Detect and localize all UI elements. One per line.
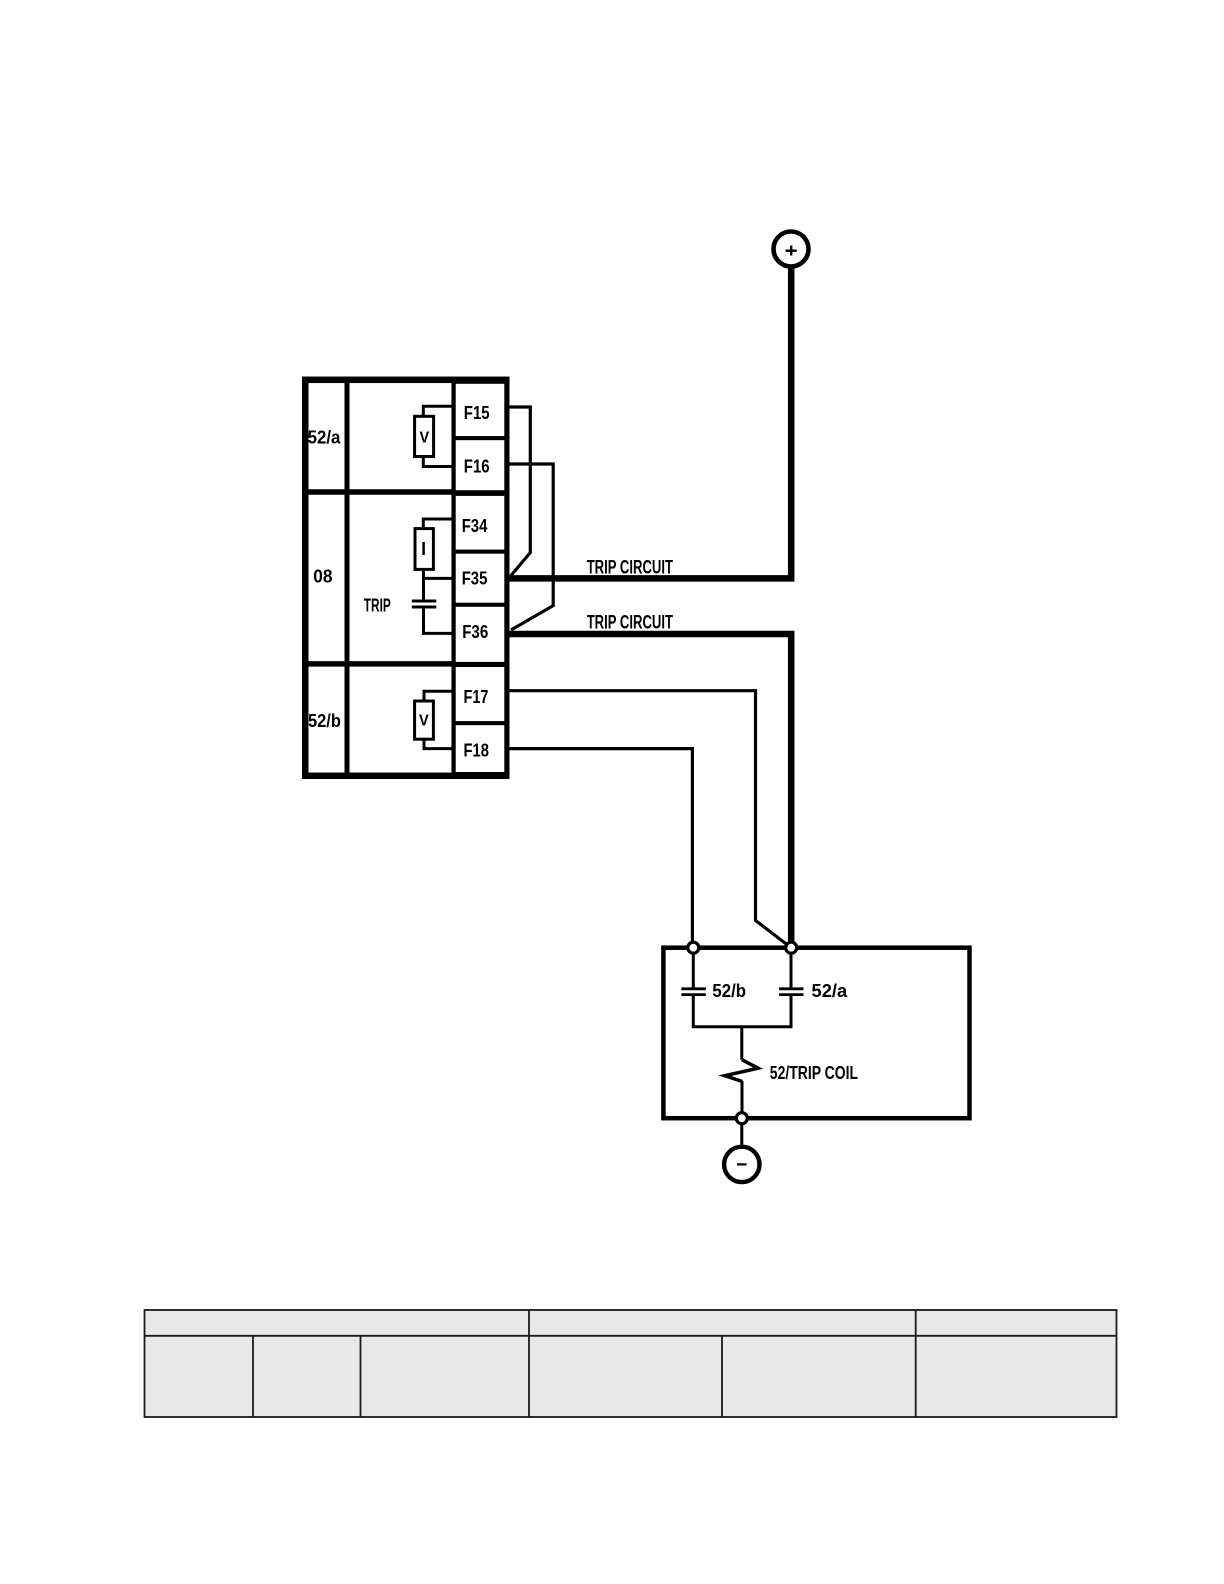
trip circuit wire 1 (F35 to +) xyxy=(507,268,792,579)
table xyxy=(145,1310,1117,1417)
node 52/a top xyxy=(786,942,797,953)
trip circuit wire 2 (F36 to 52/a contact) xyxy=(507,634,792,948)
svg-text:TRIP CIRCUIT: TRIP CIRCUIT xyxy=(587,612,674,633)
svg-text:F17: F17 xyxy=(464,687,489,707)
svg-text:52/a: 52/a xyxy=(308,427,342,447)
svg-text:52/a: 52/a xyxy=(812,981,849,1001)
node 52/b top xyxy=(688,942,699,953)
contact 52/a plate bottom xyxy=(779,993,803,996)
voltage element V box (row 52/b) xyxy=(415,701,434,739)
contact 52/b wire upper xyxy=(692,948,695,988)
positive terminal xyxy=(774,232,809,267)
breaker auxiliary box xyxy=(663,948,969,1118)
voltage element V (row 52/b) wire bottom xyxy=(424,737,454,749)
terminal F16 box xyxy=(454,438,507,492)
current element I box (row 08) xyxy=(415,529,433,570)
node coil bottom xyxy=(736,1113,747,1124)
wire F18 to 52/b node xyxy=(507,749,693,948)
wire F15 to F35 node xyxy=(507,407,531,576)
contact 52/a wire lower xyxy=(790,996,793,1027)
voltage element V (row 52/b) wire top xyxy=(424,691,454,703)
negative terminal xyxy=(724,1147,759,1182)
table body vertical 3 xyxy=(528,1336,530,1417)
terminal F36 box xyxy=(454,605,507,664)
contact 52/b plate bottom xyxy=(681,993,705,996)
row divider 08 - 52/b xyxy=(305,661,506,667)
voltage element V wire bottom xyxy=(423,454,453,467)
svg-text:F34: F34 xyxy=(462,516,488,536)
current element I wire top xyxy=(423,519,453,530)
trip coil 52/TRIP COIL xyxy=(725,1060,758,1082)
voltage element V box (row 52/a) xyxy=(415,416,434,456)
svg-text:52/b: 52/b xyxy=(712,981,746,1001)
svg-text:F35: F35 xyxy=(462,569,488,589)
terminal F17 box xyxy=(454,665,507,723)
svg-text:TRIP: TRIP xyxy=(364,595,391,615)
svg-text:52/TRIP COIL: 52/TRIP COIL xyxy=(770,1063,858,1083)
contact 52/b plate top xyxy=(681,987,705,990)
voltage element V (row 52/a) wire top xyxy=(423,406,453,418)
terminal F35 box xyxy=(454,552,507,605)
I mark xyxy=(422,542,425,555)
terminal F34 box xyxy=(454,494,507,552)
contact 52/a wire upper xyxy=(790,948,793,988)
relay label column divider xyxy=(345,380,350,776)
terminal F18 box xyxy=(454,723,507,774)
wire to negative terminal xyxy=(740,1123,743,1147)
contact 52/a plate top xyxy=(779,987,803,990)
svg-text:F18: F18 xyxy=(464,741,489,761)
relay terminal column divider xyxy=(451,380,456,776)
relay outer box xyxy=(305,380,506,776)
svg-text:TRIP CIRCUIT: TRIP CIRCUIT xyxy=(587,558,674,579)
table body vertical 2 xyxy=(360,1336,362,1417)
table header divider xyxy=(145,1335,1117,1337)
table header vertical 1 xyxy=(528,1310,530,1336)
table body vertical 5 xyxy=(915,1336,917,1417)
table body vertical 1 xyxy=(252,1336,254,1417)
wire F17 to 52/a node xyxy=(507,691,790,947)
svg-text:F15: F15 xyxy=(464,403,490,423)
table header vertical 2 xyxy=(915,1310,917,1336)
svg-text:08: 08 xyxy=(313,566,332,586)
svg-text:F16: F16 xyxy=(464,457,490,477)
svg-text:52/b: 52/b xyxy=(308,711,341,731)
svg-text:F36: F36 xyxy=(462,622,488,642)
wire capacitor to F36 xyxy=(424,607,454,633)
contact 52/b wire lower xyxy=(692,996,695,1027)
svg-text:V: V xyxy=(419,429,429,446)
capacitor plate bottom xyxy=(412,606,437,609)
svg-text:V: V xyxy=(419,712,429,729)
row divider 52/a - 08 xyxy=(305,489,506,495)
capacitor plate top xyxy=(412,600,437,603)
tee wire to F35 xyxy=(424,577,454,580)
contact join wire xyxy=(692,1025,793,1028)
table body vertical 4 xyxy=(721,1336,723,1417)
terminal F15 box xyxy=(454,382,507,438)
wire I to capacitor xyxy=(422,569,425,601)
wire F16 to F36 node xyxy=(507,464,554,630)
wire to trip coil xyxy=(740,1027,743,1060)
